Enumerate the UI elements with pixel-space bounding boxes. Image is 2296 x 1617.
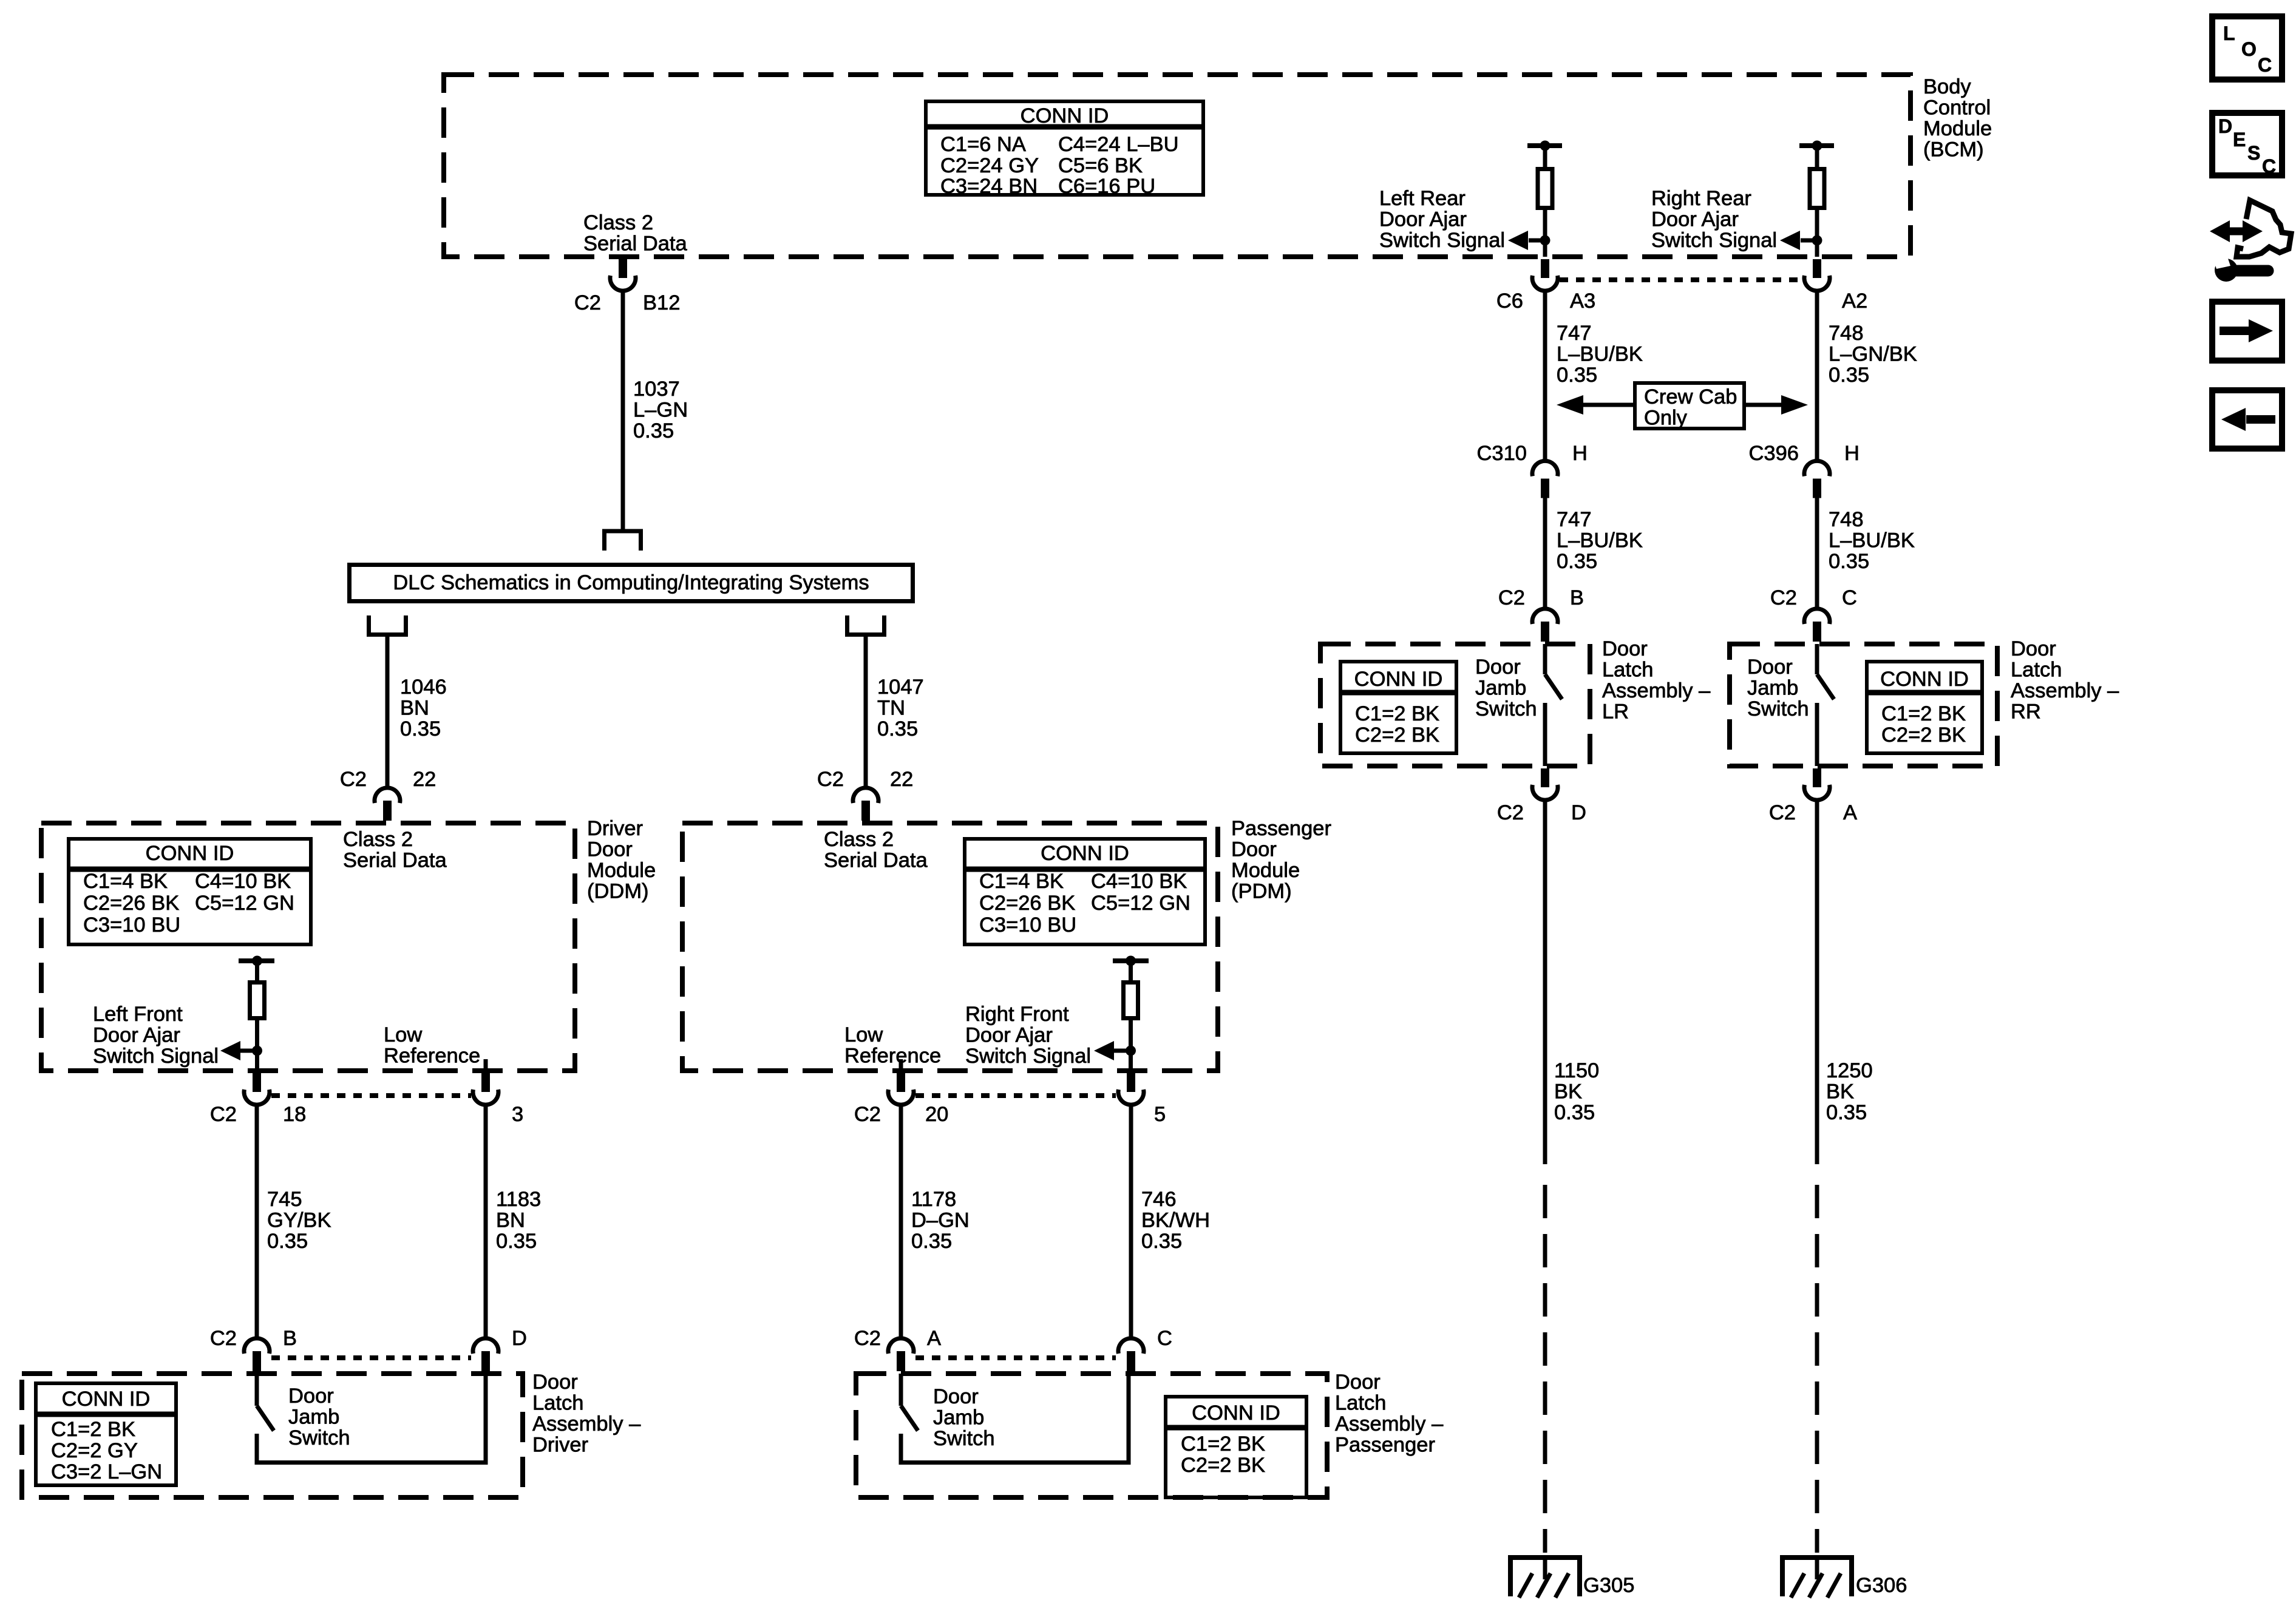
svg-text:22: 22	[413, 768, 436, 791]
svg-text:L–BU/BK: L–BU/BK	[1557, 529, 1643, 552]
connector C2 pin C (Door Latch Assembly RR)	[1804, 609, 1830, 624]
svg-text:Door: Door	[587, 838, 633, 861]
svg-text:C3=10 BU: C3=10 BU	[83, 914, 180, 937]
svg-text:Low: Low	[844, 1023, 883, 1046]
node: DDM internal junction bar	[239, 958, 274, 963]
wire: resistor to signal junction (PDM)	[1129, 1020, 1133, 1071]
svg-text:C3=2 L–GN: C3=2 L–GN	[51, 1460, 162, 1483]
svg-text:3: 3	[512, 1103, 523, 1126]
svg-text:Door Ajar: Door Ajar	[965, 1024, 1053, 1047]
svg-text:CONN ID: CONN ID	[1880, 668, 1969, 691]
dotted harness line below PDM	[915, 1093, 1116, 1098]
ground G305	[1508, 1555, 1582, 1560]
svg-text:H: H	[1572, 442, 1588, 465]
svg-text:C3=24 BN: C3=24 BN	[940, 175, 1038, 198]
svg-text:Door: Door	[2011, 637, 2056, 660]
table: passenger latch CONN ID	[1166, 1397, 1306, 1497]
svg-text:1178: 1178	[911, 1188, 956, 1211]
wire 1150 BK 0.35	[1543, 800, 1547, 1164]
wire 745 GY/BK 0.35	[255, 1105, 259, 1338]
svg-text:Latch: Latch	[2011, 659, 2062, 682]
arrow: Left Rear Door Ajar Switch Signal	[1529, 239, 1545, 243]
svg-text:CONN ID: CONN ID	[1192, 1402, 1280, 1425]
svg-text:Door: Door	[1747, 656, 1793, 679]
arrow: crew cab only right	[1744, 403, 1782, 407]
svg-text:C1=2 BK: C1=2 BK	[1355, 702, 1439, 725]
arrow: crew cab only left	[1583, 403, 1635, 407]
svg-text:0.35: 0.35	[877, 717, 918, 741]
svg-text:BN: BN	[496, 1209, 525, 1232]
svg-text:C: C	[2262, 155, 2276, 177]
svg-text:0.35: 0.35	[1554, 1101, 1595, 1124]
svg-text:Door: Door	[1475, 656, 1521, 679]
connector C2 pin 22 (PDM)	[853, 788, 878, 803]
svg-text:C2=2 GY: C2=2 GY	[51, 1439, 138, 1462]
svg-text:C2=26 BK: C2=26 BK	[83, 892, 179, 915]
svg-text:L–BU/BK: L–BU/BK	[1829, 529, 1915, 552]
svg-text:C2=26 BK: C2=26 BK	[979, 892, 1075, 915]
box: Door Latch Assembly - Passenger	[856, 1374, 1327, 1497]
svg-text:1250: 1250	[1826, 1059, 1873, 1082]
wire 1037 L-GN 0.35	[621, 291, 625, 531]
svg-text:C: C	[2258, 54, 2272, 76]
wire 748 L-BU/BK 0.35 (lower)	[1815, 498, 1819, 608]
icon: previous-page arrow box	[2212, 390, 2282, 449]
svg-text:L–GN: L–GN	[633, 399, 688, 422]
svg-text:Class 2: Class 2	[824, 828, 894, 851]
svg-text:Door: Door	[933, 1385, 979, 1408]
svg-text:C3=10 BU: C3=10 BU	[979, 914, 1076, 937]
svg-text:Jamb: Jamb	[1475, 677, 1526, 700]
svg-text:Low: Low	[384, 1023, 422, 1046]
connector pin D (Door Latch Assembly Driver)	[473, 1338, 498, 1354]
resistor: DDM door-ajar pull-up	[255, 961, 259, 980]
svg-text:C2: C2	[210, 1327, 237, 1350]
table: RR latch CONN ID	[1867, 662, 1982, 753]
svg-text:Latch: Latch	[1602, 659, 1653, 682]
svg-text:Serial Data: Serial Data	[824, 849, 928, 872]
svg-text:0.35: 0.35	[633, 419, 674, 442]
svg-text:Control: Control	[1923, 97, 1991, 120]
svg-text:745: 745	[267, 1188, 302, 1211]
svg-text:C396: C396	[1749, 442, 1799, 465]
wire 1250 BK 0.35	[1815, 800, 1819, 1164]
svg-text:Reference: Reference	[384, 1045, 480, 1068]
table: driver latch CONN ID	[36, 1383, 176, 1485]
switch: Door Jamb Switch (driver)	[255, 1374, 259, 1406]
svg-text:E: E	[2233, 129, 2246, 151]
table: PDM CONN ID	[965, 839, 1205, 944]
arrow: Left Front Door Ajar Switch Signal	[240, 1049, 257, 1053]
svg-text:0.35: 0.35	[1141, 1230, 1182, 1253]
wire 1250 BK dashed segment	[1815, 1185, 1819, 1553]
wire 1178 D-GN 0.35	[899, 1105, 903, 1338]
svg-text:C: C	[1157, 1327, 1172, 1350]
svg-text:0.35: 0.35	[1557, 364, 1597, 387]
svg-text:C2: C2	[1769, 801, 1796, 824]
wire 746 BK/WH 0.35	[1129, 1105, 1133, 1338]
connector pin 5 (PDM)	[1127, 1073, 1135, 1092]
svg-text:Only: Only	[1644, 407, 1688, 430]
svg-text:(BCM): (BCM)	[1923, 138, 1984, 161]
svg-text:C5=12 GN: C5=12 GN	[1091, 892, 1190, 915]
dotted harness line below BCM	[1560, 277, 1802, 282]
svg-text:Passenger: Passenger	[1231, 817, 1331, 840]
module box: Body Control Module (BCM)	[444, 75, 1911, 257]
wire: Low Reference stub (PDM)	[899, 1059, 903, 1071]
svg-text:C1=4 BK: C1=4 BK	[83, 870, 168, 893]
svg-text:C310: C310	[1477, 442, 1527, 465]
connector pin C (Door Latch Assembly Passenger)	[1118, 1338, 1144, 1354]
svg-text:0.35: 0.35	[1829, 364, 1869, 387]
svg-text:D: D	[2218, 115, 2232, 137]
svg-text:DLC Schematics in Computing/In: DLC Schematics in Computing/Integrating …	[393, 571, 869, 594]
connector C2 pin 20 (PDM)	[897, 1073, 905, 1092]
wire 747 L-BU/BK 0.35 (lower)	[1543, 498, 1547, 608]
svg-text:C2: C2	[1498, 586, 1525, 609]
svg-text:Switch: Switch	[288, 1426, 350, 1449]
svg-text:1183: 1183	[496, 1188, 541, 1211]
svg-text:G306: G306	[1856, 1574, 1907, 1597]
svg-text:C2=2 BK: C2=2 BK	[1881, 724, 1966, 747]
wire: Low Reference stub (DDM)	[484, 1059, 488, 1071]
dotted harness line above passenger latch	[915, 1355, 1116, 1360]
switch: Door Jamb Switch (passenger)	[899, 1374, 903, 1406]
svg-text:L–GN/BK: L–GN/BK	[1829, 343, 1917, 366]
svg-text:0.35: 0.35	[1557, 550, 1597, 573]
svg-text:G305: G305	[1583, 1574, 1634, 1597]
off-page bracket above DLC box	[602, 529, 643, 534]
svg-text:Switch Signal: Switch Signal	[965, 1045, 1091, 1068]
svg-text:Module: Module	[1231, 859, 1300, 882]
svg-text:18: 18	[283, 1103, 306, 1126]
switch: Door Jamb Switch (LR)	[1543, 644, 1547, 674]
box: Door Latch Assembly - Driver	[22, 1374, 523, 1497]
svg-text:S: S	[2247, 142, 2260, 164]
svg-text:Switch Signal: Switch Signal	[1651, 229, 1777, 252]
off-page bracket below DLC box (right)	[845, 615, 849, 635]
svg-text:Switch: Switch	[1747, 697, 1809, 720]
svg-text:C2: C2	[817, 768, 844, 791]
node: Left Rear Door Ajar Switch Signal junction	[1540, 236, 1550, 246]
svg-text:Jamb: Jamb	[933, 1406, 984, 1429]
connector C2 pin D (LR latch)	[1541, 768, 1549, 787]
svg-text:1037: 1037	[633, 378, 680, 401]
svg-text:CONN ID: CONN ID	[1354, 668, 1443, 691]
node: BCM internal bar (right rear)	[1799, 143, 1834, 148]
svg-text:Driver: Driver	[587, 817, 643, 840]
svg-text:Door: Door	[1335, 1371, 1381, 1394]
svg-text:Right Rear: Right Rear	[1651, 187, 1751, 210]
svg-text:C2: C2	[574, 291, 601, 314]
svg-text:C1=4 BK: C1=4 BK	[979, 870, 1064, 893]
svg-text:BN: BN	[400, 697, 429, 720]
svg-text:748: 748	[1829, 508, 1864, 531]
table: BCM CONN ID	[926, 101, 1203, 195]
wire 1150 BK dashed segment	[1543, 1185, 1547, 1553]
box: Door Latch Assembly - RR	[1730, 644, 1997, 766]
svg-text:Door Ajar: Door Ajar	[93, 1024, 180, 1047]
svg-text:CONN ID: CONN ID	[62, 1388, 151, 1411]
svg-text:A3: A3	[1570, 290, 1595, 313]
svg-text:747: 747	[1557, 322, 1592, 345]
svg-text:C1=6 NA: C1=6 NA	[940, 133, 1026, 156]
svg-text:Door: Door	[532, 1371, 578, 1394]
svg-text:1046: 1046	[400, 676, 447, 699]
svg-text:C2: C2	[854, 1103, 881, 1126]
svg-text:1047: 1047	[877, 676, 924, 699]
svg-text:GY/BK: GY/BK	[267, 1209, 331, 1232]
svg-text:0.35: 0.35	[1829, 550, 1869, 573]
module box: Driver Door Module (DDM)	[41, 823, 575, 1071]
arrow: Right Rear Door Ajar Switch Signal	[1801, 239, 1817, 243]
connector C6 pin A3 (BCM)	[1541, 259, 1549, 278]
svg-text:0.35: 0.35	[1826, 1101, 1867, 1124]
node: Right Front Door Ajar Switch Signal junction	[1126, 1046, 1136, 1056]
svg-text:Assembly –: Assembly –	[1602, 679, 1711, 702]
callout box: Crew Cab Only	[1635, 383, 1744, 429]
svg-text:Jamb: Jamb	[288, 1406, 339, 1429]
svg-text:C2=2 BK: C2=2 BK	[1355, 724, 1439, 747]
connector C2 pin 22 (DDM)	[375, 788, 400, 803]
node: Left Front Door Ajar Switch Signal junction	[252, 1046, 262, 1056]
svg-text:Jamb: Jamb	[1747, 677, 1798, 700]
connector C2 pin A (Door Latch Assembly Passenger)	[888, 1338, 914, 1354]
svg-text:A: A	[1843, 801, 1857, 824]
svg-text:Door: Door	[1231, 838, 1277, 861]
wire 1046 BN 0.35	[385, 637, 390, 787]
svg-text:(PDM): (PDM)	[1231, 880, 1292, 903]
svg-text:20: 20	[925, 1103, 948, 1126]
svg-text:Assembly –: Assembly –	[1335, 1412, 1444, 1436]
svg-text:0.35: 0.35	[496, 1230, 537, 1253]
svg-text:0.35: 0.35	[911, 1230, 952, 1253]
svg-text:D: D	[512, 1327, 527, 1350]
svg-text:Reference: Reference	[844, 1045, 941, 1068]
svg-text:BK: BK	[1554, 1080, 1582, 1103]
resistor: BCM right rear door ajar pull-up	[1815, 146, 1819, 167]
node: Right Rear Door Ajar Switch Signal junction	[1812, 236, 1822, 246]
svg-text:CONN ID: CONN ID	[146, 842, 234, 865]
svg-text:Switch: Switch	[933, 1427, 995, 1450]
svg-text:Class 2: Class 2	[343, 828, 413, 851]
svg-text:C2: C2	[210, 1103, 237, 1126]
connector C2 pin 18 (DDM)	[253, 1073, 261, 1092]
svg-text:Left Front: Left Front	[93, 1003, 183, 1026]
svg-text:Door: Door	[1602, 637, 1648, 660]
svg-text:746: 746	[1141, 1188, 1177, 1211]
svg-text:BK/WH: BK/WH	[1141, 1209, 1210, 1232]
svg-text:C5=6 BK: C5=6 BK	[1058, 154, 1143, 177]
svg-text:Left Rear: Left Rear	[1379, 187, 1466, 210]
svg-text:1150: 1150	[1554, 1059, 1599, 1082]
switch: Door Jamb Switch (RR)	[1815, 644, 1819, 674]
svg-text:C5=12 GN: C5=12 GN	[195, 892, 294, 915]
svg-text:Latch: Latch	[1335, 1392, 1386, 1415]
svg-text:Latch: Latch	[532, 1392, 583, 1415]
connector pin 3 (DDM)	[481, 1073, 490, 1092]
wire 1047 TN 0.35	[864, 637, 868, 787]
svg-text:Switch Signal: Switch Signal	[1379, 229, 1505, 252]
svg-text:C6=16 PU: C6=16 PU	[1058, 175, 1155, 198]
svg-text:L: L	[2223, 22, 2235, 44]
table: DDM CONN ID	[69, 839, 311, 944]
node: PDM internal junction bar	[1113, 958, 1149, 963]
icon: next-page arrow box	[2212, 302, 2282, 361]
svg-text:Serial Data: Serial Data	[343, 849, 447, 872]
svg-text:B: B	[1570, 586, 1584, 609]
connector C6 pin A2 (BCM)	[1813, 259, 1821, 278]
svg-text:0.35: 0.35	[267, 1230, 308, 1253]
svg-text:TN: TN	[877, 697, 905, 720]
svg-text:Right Front: Right Front	[965, 1003, 1069, 1026]
svg-text:D: D	[1571, 801, 1586, 824]
ground G306	[1780, 1555, 1854, 1560]
svg-text:(DDM): (DDM)	[587, 880, 649, 903]
box: Door Latch Assembly - LR	[1320, 644, 1590, 766]
wire 1183 BN 0.35	[484, 1105, 488, 1338]
module box: Passenger Door Module (PDM)	[682, 823, 1218, 1071]
svg-text:LR: LR	[1602, 700, 1629, 724]
svg-text:C2: C2	[340, 768, 367, 791]
svg-text:Serial Data: Serial Data	[583, 232, 687, 256]
svg-text:C4=10 BK: C4=10 BK	[1091, 870, 1187, 893]
svg-text:Door Ajar: Door Ajar	[1379, 208, 1467, 231]
svg-text:Crew Cab: Crew Cab	[1644, 385, 1737, 408]
wire 747 L-BU/BK 0.35 (upper)	[1543, 291, 1547, 460]
svg-text:B: B	[283, 1327, 297, 1350]
icon: LOC box	[2212, 16, 2282, 80]
svg-text:C2: C2	[1770, 586, 1797, 609]
icon: diagnostic arrow and wrench	[2237, 200, 2291, 257]
arrow: Right Front Door Ajar Switch Signal	[1114, 1049, 1131, 1053]
svg-text:747: 747	[1557, 508, 1592, 531]
wire: resistor to signal junction (DDM)	[255, 1020, 259, 1071]
connector C310 pin H (inline, left rear)	[1532, 461, 1558, 476]
connector C2 pin B (Door Latch Assembly Driver)	[244, 1338, 270, 1354]
svg-text:Class 2: Class 2	[583, 211, 653, 234]
svg-text:C1=2 BK: C1=2 BK	[1181, 1432, 1265, 1456]
svg-text:C2: C2	[854, 1327, 881, 1350]
off-page bracket below DLC box (left)	[367, 615, 371, 635]
svg-text:A: A	[927, 1327, 941, 1350]
svg-text:BK: BK	[1826, 1080, 1854, 1103]
svg-text:CONN ID: CONN ID	[1021, 104, 1109, 127]
table: LR latch CONN ID	[1340, 662, 1456, 753]
svg-text:RR: RR	[2011, 700, 2041, 724]
svg-text:Assembly –: Assembly –	[2011, 679, 2119, 702]
svg-text:C2=2 BK: C2=2 BK	[1181, 1454, 1265, 1477]
svg-text:Switch: Switch	[1475, 697, 1537, 720]
resistor: BCM left rear door ajar pull-up	[1543, 146, 1547, 167]
svg-text:C2=24 GY: C2=24 GY	[940, 154, 1039, 177]
svg-text:Driver: Driver	[532, 1434, 588, 1457]
svg-text:C1=2 BK: C1=2 BK	[1881, 702, 1966, 725]
resistor: PDM door-ajar pull-up	[1129, 961, 1133, 980]
svg-text:C1=2 BK: C1=2 BK	[51, 1418, 135, 1441]
svg-text:Module: Module	[1923, 117, 1992, 140]
connector C2 pin B (Door Latch Assembly LR)	[1532, 609, 1558, 624]
svg-text:C6: C6	[1496, 290, 1523, 313]
svg-text:748: 748	[1829, 322, 1864, 345]
svg-text:C4=10 BK: C4=10 BK	[195, 870, 291, 893]
box: DLC Schematics in Computing/Integrating Systems	[350, 565, 913, 602]
dotted harness line above driver latch	[271, 1355, 471, 1360]
svg-text:O: O	[2241, 38, 2257, 60]
svg-text:22: 22	[890, 768, 913, 791]
svg-text:0.35: 0.35	[400, 717, 441, 741]
svg-text:C: C	[1842, 586, 1857, 609]
svg-text:B12: B12	[643, 291, 680, 314]
wire 748 L-GN/BK 0.35 (upper)	[1815, 291, 1819, 460]
svg-text:Assembly –: Assembly –	[532, 1412, 641, 1436]
connector C2 pin A (RR latch)	[1813, 768, 1821, 787]
svg-text:H: H	[1844, 442, 1860, 465]
svg-text:A2: A2	[1842, 290, 1867, 313]
dotted harness line below DDM	[271, 1093, 471, 1098]
wire: resistor to junction (left rear)	[1543, 210, 1547, 257]
svg-text:C4=24 L–BU: C4=24 L–BU	[1058, 133, 1179, 156]
svg-text:Body: Body	[1923, 75, 1971, 98]
svg-text:Door: Door	[288, 1385, 334, 1408]
svg-text:Door Ajar: Door Ajar	[1651, 208, 1739, 231]
svg-text:CONN ID: CONN ID	[1041, 842, 1129, 865]
icon: DESC box	[2212, 113, 2282, 175]
connector C2 pin B12 (BCM)	[619, 259, 627, 278]
wire: resistor to junction (right rear)	[1815, 210, 1819, 257]
node: BCM internal bar (left rear)	[1527, 143, 1562, 148]
svg-text:C2: C2	[1497, 801, 1524, 824]
svg-text:L–BU/BK: L–BU/BK	[1557, 343, 1643, 366]
svg-text:5: 5	[1154, 1103, 1166, 1126]
svg-text:D–GN: D–GN	[911, 1209, 970, 1232]
svg-text:Module: Module	[587, 859, 656, 882]
svg-text:Switch Signal: Switch Signal	[93, 1045, 219, 1068]
svg-text:Passenger: Passenger	[1335, 1434, 1435, 1457]
connector C396 pin H (inline, right rear)	[1804, 461, 1830, 476]
